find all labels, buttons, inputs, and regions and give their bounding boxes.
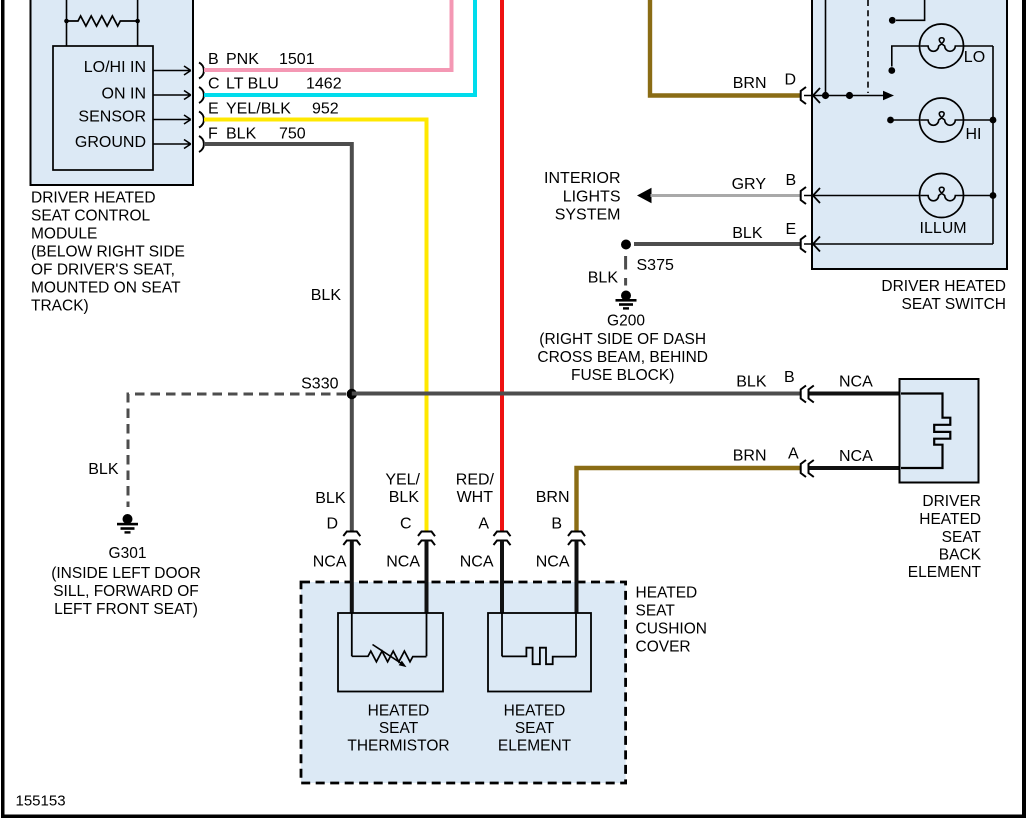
heated seat element box bbox=[488, 613, 591, 692]
lamp HI right lead bbox=[964, 119, 994, 121]
svg-text:S375: S375 bbox=[637, 257, 674, 274]
chevron into switch B bbox=[813, 188, 820, 203]
chevron into switch E bbox=[813, 237, 820, 252]
switch internal feed line bbox=[825, 0, 827, 92]
svg-text:(RIGHT SIDE OF DASH: (RIGHT SIDE OF DASH bbox=[539, 331, 706, 348]
svg-text:B: B bbox=[551, 516, 562, 533]
page frame left bbox=[1, 0, 5, 818]
wire black into element A bbox=[500, 541, 504, 614]
back element heater symbol bbox=[901, 394, 950, 469]
svg-text:BRN: BRN bbox=[733, 448, 767, 465]
wire black into thermistor D bbox=[350, 541, 354, 614]
page frame right bbox=[1022, 0, 1026, 818]
svg-text:G301: G301 bbox=[109, 545, 147, 562]
svg-text:E: E bbox=[208, 101, 219, 118]
svg-text:952: 952 bbox=[312, 101, 339, 118]
svg-text:NCA: NCA bbox=[536, 554, 570, 571]
heated seat cushion cover dashed box bbox=[301, 582, 626, 783]
lamp LO left lead bbox=[892, 46, 920, 67]
svg-text:SYSTEM: SYSTEM bbox=[555, 207, 621, 224]
svg-text:SEAT SWITCH: SEAT SWITCH bbox=[902, 296, 1007, 313]
svg-text:LIGHTS: LIGHTS bbox=[563, 189, 621, 206]
wire module internal left lead bbox=[66, 0, 68, 46]
svg-text:750: 750 bbox=[279, 126, 306, 143]
wire RED/WHT bbox=[500, 0, 504, 531]
lamp HI left lead bbox=[891, 119, 920, 121]
svg-text:SEAT CONTROL: SEAT CONTROL bbox=[31, 208, 151, 225]
svg-text:DRIVER HEATED: DRIVER HEATED bbox=[881, 278, 1006, 295]
driver heated seat control module outer box bbox=[31, 0, 194, 185]
thermistor lead right bbox=[426, 613, 428, 656]
svg-text:MOUNTED ON SEAT: MOUNTED ON SEAT bbox=[31, 280, 181, 297]
wire NCA to back element B bbox=[810, 392, 901, 396]
svg-text:HEATED: HEATED bbox=[368, 703, 430, 720]
module pin arrow C bbox=[153, 91, 191, 100]
svg-text:S330: S330 bbox=[301, 376, 338, 393]
svg-text:155153: 155153 bbox=[16, 793, 66, 810]
lamp HI bbox=[920, 98, 964, 142]
heated seat thermistor box bbox=[338, 613, 443, 692]
svg-text:NCA: NCA bbox=[386, 554, 420, 571]
svg-text:PNK: PNK bbox=[226, 51, 259, 68]
svg-text:NCA: NCA bbox=[839, 374, 873, 391]
wire black into thermistor C bbox=[425, 541, 429, 614]
svg-text:D: D bbox=[785, 72, 797, 89]
wire BLK 750 bbox=[204, 144, 352, 531]
module inner box bbox=[53, 46, 153, 170]
driver heated seat switch box bbox=[812, 0, 1007, 269]
svg-text:LT BLU: LT BLU bbox=[226, 76, 279, 93]
wiper junction dot 2 bbox=[846, 92, 853, 99]
svg-text:G200: G200 bbox=[607, 313, 645, 330]
connector pin E bbox=[199, 112, 204, 128]
svg-text:YEL/BLK: YEL/BLK bbox=[226, 101, 291, 118]
svg-text:CROSS BEAM, BEHIND: CROSS BEAM, BEHIND bbox=[537, 349, 708, 366]
module pin arrow E bbox=[153, 115, 191, 124]
svg-text:ILLUM: ILLUM bbox=[920, 220, 967, 237]
svg-text:BACK: BACK bbox=[939, 547, 982, 564]
svg-text:RED/: RED/ bbox=[456, 472, 495, 489]
svg-text:SILL, FORWARD OF: SILL, FORWARD OF bbox=[53, 583, 199, 600]
svg-text:LO/HI IN: LO/HI IN bbox=[84, 59, 146, 76]
svg-text:ON IN: ON IN bbox=[102, 86, 146, 103]
wire BLK E to switch bbox=[634, 242, 800, 246]
svg-text:BRN: BRN bbox=[733, 75, 767, 92]
connector E bracket bbox=[801, 236, 806, 253]
wire module internal right lead bbox=[137, 0, 139, 46]
svg-text:B: B bbox=[784, 369, 795, 386]
switch actuator dashed line bbox=[867, 0, 869, 93]
driver heated seat back element box bbox=[900, 379, 979, 483]
connector pin F bbox=[199, 136, 204, 152]
connector arches A bbox=[494, 532, 511, 546]
svg-text:SEAT: SEAT bbox=[942, 529, 982, 546]
arrow to interior lights bbox=[637, 188, 652, 203]
svg-text:CUSHION: CUSHION bbox=[636, 621, 707, 638]
contact dot top bbox=[889, 17, 896, 24]
contact dot HI bbox=[887, 117, 894, 124]
connector pin C bbox=[199, 87, 204, 103]
lamp ILLUM bbox=[920, 174, 964, 218]
page frame bottom bbox=[1, 815, 1026, 818]
svg-text:OF DRIVER'S SEAT,: OF DRIVER'S SEAT, bbox=[31, 262, 175, 279]
connector pin B bbox=[199, 63, 204, 79]
svg-text:ELEMENT: ELEMENT bbox=[908, 564, 982, 581]
svg-text:WHT: WHT bbox=[457, 489, 494, 506]
svg-text:MODULE: MODULE bbox=[31, 226, 97, 243]
chevron into switch D bbox=[813, 88, 820, 103]
connector D bracket bbox=[801, 87, 806, 104]
splice S330 bbox=[347, 389, 357, 399]
svg-text:HEATED: HEATED bbox=[636, 585, 698, 602]
svg-text:D: D bbox=[326, 516, 338, 533]
svg-text:NCA: NCA bbox=[313, 554, 347, 571]
wire LT BLU 1462 bbox=[204, 0, 475, 95]
E row wire in switch bbox=[804, 243, 993, 245]
heating element symbol bbox=[502, 648, 576, 665]
svg-text:BLK: BLK bbox=[88, 461, 119, 478]
svg-text:LEFT FRONT SEAT): LEFT FRONT SEAT) bbox=[54, 601, 198, 618]
wire BRN to switch D bbox=[650, 0, 800, 96]
svg-text:C: C bbox=[400, 516, 412, 533]
svg-text:GROUND: GROUND bbox=[75, 134, 146, 151]
lamp LO right lead bbox=[964, 45, 994, 47]
svg-text:BLK: BLK bbox=[736, 374, 767, 391]
wire YEL/BLK 952 bbox=[204, 120, 427, 532]
thermistor arrow bbox=[373, 645, 402, 664]
ground G301 bbox=[123, 514, 133, 524]
contact dot LO bbox=[888, 67, 895, 74]
svg-text:BLK: BLK bbox=[389, 489, 420, 506]
svg-text:BLK: BLK bbox=[588, 270, 619, 287]
wire PNK 1501 bbox=[204, 0, 452, 70]
connector arches B bbox=[568, 532, 585, 546]
switch top contact wire bbox=[896, 0, 925, 20]
wire black into element B bbox=[575, 541, 579, 614]
svg-text:A: A bbox=[478, 516, 489, 533]
element lead left bbox=[501, 613, 503, 656]
svg-text:SEAT: SEAT bbox=[636, 603, 676, 620]
module pin arrow B bbox=[153, 66, 191, 75]
junction dot resistor left bbox=[64, 19, 69, 24]
connector arches D bbox=[343, 532, 360, 546]
svg-text:NCA: NCA bbox=[460, 554, 494, 571]
svg-text:THERMISTOR: THERMISTOR bbox=[347, 738, 449, 755]
ground G200 bbox=[621, 291, 631, 301]
lamp ILLUM right lead bbox=[964, 195, 994, 197]
svg-text:A: A bbox=[788, 446, 799, 463]
switch bus line bbox=[992, 46, 994, 244]
svg-text:E: E bbox=[786, 221, 797, 238]
svg-text:INTERIOR: INTERIOR bbox=[544, 170, 620, 187]
svg-text:SEAT: SEAT bbox=[515, 720, 555, 737]
lamp LO bbox=[920, 24, 964, 68]
svg-text:YEL/: YEL/ bbox=[385, 472, 420, 489]
svg-text:F: F bbox=[208, 126, 218, 143]
inline connector A double bracket bbox=[801, 460, 814, 477]
element lead right bbox=[575, 613, 577, 657]
wire BLK dashed to G200 bbox=[624, 256, 627, 286]
svg-text:FUSE BLOCK): FUSE BLOCK) bbox=[571, 367, 674, 384]
wiper arrow head bbox=[883, 91, 894, 100]
svg-text:(INSIDE LEFT DOOR: (INSIDE LEFT DOOR bbox=[51, 565, 201, 582]
connector B bracket bbox=[801, 187, 806, 204]
svg-text:TRACK): TRACK) bbox=[31, 298, 89, 315]
resistor in module bbox=[67, 16, 138, 26]
splice S375 dot bbox=[621, 240, 631, 250]
junction dot resistor right bbox=[135, 19, 140, 24]
connector arches C bbox=[418, 532, 435, 546]
svg-text:DRIVER HEATED: DRIVER HEATED bbox=[31, 190, 156, 207]
svg-text:B: B bbox=[208, 51, 219, 68]
wire BLK dashed S330 to G301 bbox=[128, 394, 346, 507]
svg-text:1462: 1462 bbox=[306, 76, 342, 93]
wire BRN seat back A bbox=[577, 468, 801, 531]
svg-text:B: B bbox=[786, 172, 797, 189]
svg-text:SENSOR: SENSOR bbox=[78, 109, 146, 126]
switch wiper line D bbox=[804, 95, 884, 97]
svg-text:SEAT: SEAT bbox=[379, 720, 419, 737]
module pin arrow F bbox=[153, 140, 191, 149]
svg-text:C: C bbox=[208, 76, 220, 93]
svg-text:(BELOW RIGHT SIDE: (BELOW RIGHT SIDE bbox=[31, 244, 185, 261]
svg-text:BLK: BLK bbox=[732, 225, 763, 242]
wire NCA to back element A bbox=[810, 466, 901, 470]
svg-text:BRN: BRN bbox=[536, 489, 570, 506]
svg-text:NCA: NCA bbox=[839, 448, 873, 465]
svg-text:DRIVER: DRIVER bbox=[922, 493, 981, 510]
svg-text:HEATED: HEATED bbox=[919, 511, 981, 528]
thermistor resistor bbox=[352, 651, 427, 662]
svg-text:BLK: BLK bbox=[311, 287, 342, 304]
svg-text:BLK: BLK bbox=[315, 490, 346, 507]
svg-text:COVER: COVER bbox=[636, 639, 691, 656]
svg-text:1501: 1501 bbox=[279, 51, 315, 68]
illum row wire bbox=[804, 195, 920, 197]
svg-text:BLK: BLK bbox=[226, 126, 257, 143]
inline connector B double bracket bbox=[801, 386, 814, 403]
svg-text:LO: LO bbox=[964, 49, 985, 66]
svg-text:HI: HI bbox=[966, 126, 982, 143]
thermistor lead left bbox=[351, 613, 353, 656]
wire BLK S330 to B bbox=[352, 392, 800, 396]
svg-text:GRY: GRY bbox=[732, 176, 767, 193]
junction dot ILLUM bus bbox=[990, 192, 997, 199]
wire GRY illumination bbox=[651, 194, 801, 197]
svg-text:ELEMENT: ELEMENT bbox=[498, 738, 572, 755]
junction dot HI bus bbox=[990, 117, 997, 124]
wiper junction dot 1 bbox=[822, 92, 829, 99]
svg-text:HEATED: HEATED bbox=[504, 703, 566, 720]
